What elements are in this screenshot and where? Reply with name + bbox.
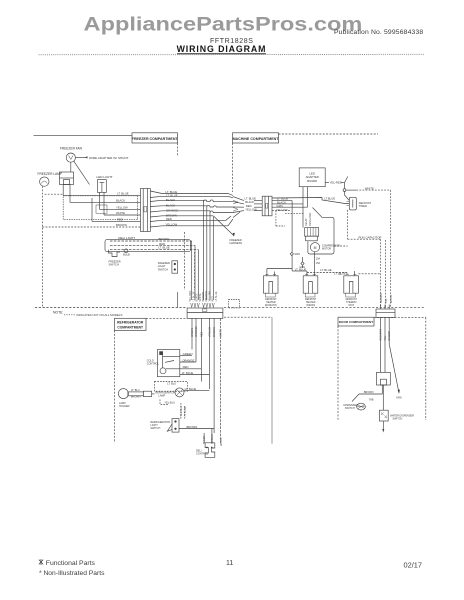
svg-text:LT. BLUE: LT. BLUE: [320, 268, 332, 272]
svg-text:WHITE: WHITE: [220, 329, 223, 337]
node junction diamond grn 1: [290, 252, 300, 256]
svg-text:INDICATES NOT ON ALL MODELS: INDICATES NOT ON ALL MODELS: [77, 313, 123, 317]
wire deli lt blue: [110, 246, 198, 250]
svg-text:LT. BLUE: LT. BLUE: [117, 192, 129, 196]
svg-text:REFRIGERATOR: REFRIGERATOR: [117, 320, 144, 324]
wire arrows entering refrigerator connector: [191, 303, 215, 308]
wire vertical bundle to refrigerator connector: [192, 200, 214, 300]
svg-text:GREEN: GREEN: [191, 328, 194, 337]
svg-text:LT. BLUE: LT. BLUE: [182, 371, 194, 375]
svg-text:ORANGE: ORANGE: [182, 358, 194, 362]
svg-text:SWITCH: SWITCH: [345, 407, 355, 410]
node machine compartment top border: [279, 133, 379, 135]
wire green from control: [180, 352, 193, 356]
resistor fan housing block: [60, 172, 74, 185]
lamp LED light: [97, 175, 113, 192]
svg-text:BROWN: BROWN: [116, 223, 127, 227]
wire refrigerator bundle below connector: [192, 318, 221, 442]
wire lamp dashed link: [45, 193, 64, 195]
node rotated labels machine bottom right: [380, 293, 393, 303]
svg-text:RED: RED: [166, 217, 172, 221]
wire lt blue jumpers above heaters: [295, 267, 355, 275]
wire diagonal ground arrow: [390, 347, 402, 400]
svg-text:FREEZER LAMP: FREEZER LAMP: [38, 172, 62, 176]
svg-text:DELI LIGHT: DELI LIGHT: [118, 236, 135, 240]
wire machine connector to board: [272, 187, 308, 252]
node junction diamond grn 2: [299, 262, 305, 269]
node machine compartment label box: [233, 133, 280, 143]
svg-text:RED-BRN: RED-BRN: [380, 329, 383, 341]
svg-text:* Non-Illustrated Parts: * Non-Illustrated Parts: [39, 570, 105, 577]
svg-text:BLACK: BLACK: [166, 203, 175, 207]
node deli light assembly box: [105, 240, 191, 252]
wire machine inlet merge brackets: [233, 200, 238, 211]
wire dashed link fork3 to cap: [358, 273, 380, 275]
node callout arrow to harness: [214, 217, 242, 246]
wire to defrost thermostat: [345, 192, 350, 201]
svg-text:Publication No. 5995684338: Publication No. 5995684338: [334, 29, 423, 36]
switch S4 dispenser switch: [344, 394, 366, 410]
svg-text:BROWN: BROWN: [380, 293, 383, 303]
node amp labels: [316, 258, 321, 265]
svg-text:YEL: YEL: [385, 298, 388, 303]
node door compartment top border: [374, 316, 426, 318]
node machine compartment left border: [232, 143, 234, 192]
lamp L2 refrigerator lamp: [156, 388, 185, 398]
svg-text:(DRAIN): (DRAIN): [306, 304, 315, 307]
heater E1 defrost heater: [263, 276, 278, 307]
wire into machine connector: [254, 201, 262, 211]
svg-text:RED: RED: [200, 332, 203, 337]
svg-text:LT. BLUE: LT. BLUE: [158, 246, 170, 250]
node door compartment left border: [337, 326, 339, 420]
svg-text:10A: 10A: [316, 258, 321, 261]
node refrigerator compartment top border: [146, 317, 187, 319]
svg-text:LT BLUE: LT BLUE: [184, 406, 187, 416]
connector CN-M machine: [262, 196, 272, 216]
resistor overload protector: [306, 236, 318, 241]
svg-text:ORANGE: ORANGE: [166, 209, 178, 213]
svg-text:LT BLUE: LT BLUE: [215, 291, 218, 301]
node wire labels right of freezer connector: [166, 190, 179, 227]
svg-text:LT. BLU: LT. BLU: [131, 389, 140, 392]
svg-text:Functional Parts: Functional Parts: [46, 560, 96, 567]
wire brown from switch: [179, 425, 214, 429]
svg-text:YEL-BLU: YEL-BLU: [165, 402, 176, 405]
node refrigerator compartment top border right: [224, 316, 272, 318]
relay K3 cold control box: [157, 350, 179, 377]
svg-text:FREEZER FAN: FREEZER FAN: [60, 146, 83, 150]
node refrigerator compartment label box: [115, 318, 147, 330]
lamp L3 fresh food lamp holder: [118, 389, 151, 408]
node header rule: [39, 53, 425, 55]
relay K1 start relay hatched: [305, 228, 319, 237]
svg-text:WHITE: WHITE: [220, 438, 223, 446]
svg-text:BLACK: BLACK: [116, 198, 125, 202]
node rotated labels below refrigerator connector: [191, 326, 223, 337]
svg-text:GRN: GRN: [294, 253, 300, 256]
svg-text:BOARD: BOARD: [307, 179, 317, 183]
wire yel-blue dashed: [160, 400, 185, 419]
node rotated labels relay overload: [305, 212, 312, 226]
node multi control: [196, 443, 215, 458]
wire crossover humps to machine compartment: [204, 197, 244, 218]
svg-text:WHITE: WHITE: [390, 295, 393, 303]
svg-text:BLACK: BLACK: [166, 198, 175, 202]
wire lamp holder link: [152, 393, 155, 395]
node junction circle: [343, 189, 346, 192]
node cold control label: [147, 360, 160, 366]
wire freezer lamp dashed drop: [41, 186, 43, 307]
svg-text:YEL: YEL: [384, 335, 387, 340]
wire brown dashed into connector: [42, 226, 140, 228]
svg-text:BROWN: BROWN: [364, 391, 374, 394]
svg-text:GRN: GRN: [396, 397, 402, 400]
node lamp dashed box: [155, 382, 188, 392]
svg-text:MACHINE COMPARTMENT: MACHINE COMPARTMENT: [233, 137, 280, 141]
svg-text:LAMP: LAMP: [159, 395, 166, 398]
wire lt blue to thermostat: [272, 198, 349, 204]
node door compartment label box: [338, 317, 374, 326]
svg-text:LT. BLUE: LT. BLUE: [185, 387, 197, 391]
motor M1 freezer fan: [60, 146, 83, 162]
node dashed branch below connector: [276, 211, 304, 226]
node door compartment right border: [425, 317, 427, 420]
wire deli red: [110, 242, 195, 246]
svg-text:MOTOR: MOTOR: [322, 247, 331, 250]
thermostat E3 defrost thermostat: [344, 276, 359, 307]
svg-text:FREEZER COMPARTMENT: FREEZER COMPARTMENT: [132, 137, 179, 141]
wire fanout right of connector: [150, 191, 233, 227]
wire run capacitor dashed: [348, 210, 382, 308]
svg-text:SWITCH: SWITCH: [109, 263, 119, 267]
lamp L1 freezer lamp: [38, 172, 62, 186]
node rotated harness labels above refrigerator connector: [189, 290, 218, 301]
node dashed spare connector: [229, 300, 240, 308]
svg-text:02/17: 02/17: [404, 561, 423, 570]
node compartment divider dashed right: [224, 307, 425, 309]
svg-text:YELLOW: YELLOW: [276, 208, 288, 212]
svg-text:TIMER: TIMER: [359, 204, 367, 208]
wire deli brown: [110, 237, 192, 241]
svg-text:LED LIGHT: LED LIGHT: [97, 175, 113, 179]
wire dashed vertical machine right: [385, 240, 387, 308]
svg-text:LT. BLUE: LT. BLUE: [295, 267, 307, 271]
svg-text:WHITE: WHITE: [365, 186, 374, 190]
svg-text:NOTE:: NOTE:: [53, 311, 63, 315]
heater E2 defrost heater 2: [303, 276, 318, 307]
switch S2 freezer light switch: [158, 261, 178, 273]
svg-text:SWITCH: SWITCH: [158, 267, 168, 271]
op-amp U1 led adapter board: [299, 168, 325, 187]
wire yel-red from board: [325, 177, 348, 189]
svg-text:ORANGE: ORANGE: [195, 326, 198, 337]
wire compressor ground drops: [267, 252, 315, 276]
switch S1 freezer door switch: [109, 250, 121, 267]
svg-text:15A: 15A: [316, 262, 321, 265]
svg-text:BROWN: BROWN: [388, 331, 391, 341]
svg-text:RED: RED: [183, 365, 189, 369]
node wire labels left of freezer connector: [116, 192, 129, 227]
wire freezer border dashes lower: [184, 232, 194, 290]
node note dashes and text: [64, 313, 122, 317]
svg-text:BROWN: BROWN: [131, 395, 141, 398]
node freezer compartment label box: [132, 133, 179, 143]
wire harness into freezer connector: [63, 185, 140, 222]
svg-text:GREEN: GREEN: [183, 352, 193, 356]
node refrigerator compartment right border: [271, 317, 273, 444]
svg-text:(RADIANT): (RADIANT): [265, 304, 277, 307]
node compartment divider dashed: [35, 307, 186, 309]
node wire labels left of machine connector: [244, 197, 257, 212]
svg-text:WIRE ADAPTER W/ SHUNT: WIRE ADAPTER W/ SHUNT: [89, 156, 129, 160]
wire dashed shell to cap: [334, 245, 348, 247]
node compressor shell outline: [308, 208, 334, 255]
svg-text:WHITE: WHITE: [116, 211, 125, 215]
svg-text:AppliancePartsPros.com: AppliancePartsPros.com: [84, 14, 363, 35]
svg-text:RELAY: RELAY: [305, 218, 308, 226]
svg-text:YELLOW: YELLOW: [166, 223, 178, 227]
node refrigerator compartment left border: [114, 331, 116, 444]
lamp deli bulb: [123, 249, 130, 256]
svg-text:BROWN: BROWN: [187, 425, 198, 429]
svg-text:OVERLOAD: OVERLOAD: [309, 212, 312, 226]
wire brown dispenser: [359, 385, 382, 401]
node title underline: [177, 53, 266, 54]
svg-text:M: M: [314, 246, 317, 250]
wire drops to multi control: [204, 429, 214, 443]
svg-text:BROWN: BROWN: [159, 237, 170, 241]
node prong ticks: [265, 273, 356, 275]
svg-text:YEL-BLU: YEL-BLU: [180, 406, 183, 417]
node wire labels right of machine connector: [276, 196, 289, 211]
svg-text:HOLDER: HOLDER: [119, 405, 130, 408]
svg-text:RED: RED: [117, 217, 123, 221]
svg-text:STAT: STAT: [348, 304, 354, 307]
svg-text:SWITCH: SWITCH: [393, 418, 403, 421]
node rotated labels door bundle: [380, 329, 392, 341]
svg-text:11: 11: [226, 560, 233, 567]
svg-text:YELLOW: YELLOW: [116, 205, 128, 209]
svg-text:RUN CAPACITOR: RUN CAPACITOR: [359, 235, 382, 239]
svg-text:LT.BLUE: LT.BLUE: [324, 196, 335, 200]
svg-text:WIRING DIAGRAM: WIRING DIAGRAM: [177, 44, 267, 54]
svg-text:COMPARTMENT: COMPARTMENT: [117, 325, 143, 329]
node ice water module: [377, 372, 391, 385]
svg-text:SWITCH: SWITCH: [150, 427, 160, 430]
wire freezer fan diagonal: [74, 161, 90, 184]
svg-text:DOOR COMPARTMENT: DOOR COMPARTMENT: [339, 320, 373, 324]
node wire adapter w/shunt callout: [76, 156, 129, 160]
node freezer compartment top border: [34, 135, 133, 137]
svg-text:A.: A.: [340, 272, 343, 276]
wire door bundle: [381, 318, 390, 373]
svg-text:LT. BLU: LT. BLU: [167, 382, 176, 386]
wire lt blue lamp: [184, 387, 209, 391]
svg-text:CONTROL: CONTROL: [196, 452, 209, 455]
wire lt blue from control: [180, 371, 210, 375]
connector CN-R refrigerator harness: [187, 308, 223, 318]
node light assembly enclosure: [63, 196, 138, 220]
switch S5 water dispenser switch: [379, 385, 414, 433]
node freezer compartment right border lower: [177, 292, 179, 308]
wire white dashed right: [346, 186, 391, 307]
svg-text:LT BLUE: LT BLUE: [208, 327, 211, 337]
svg-text:BROWN: BROWN: [213, 327, 216, 337]
node freezer compartment right border: [177, 143, 179, 156]
relay K2 defrost thermostat: [347, 197, 372, 210]
connector CN-F freezer: [141, 189, 151, 232]
svg-text:HARNESS: HARNESS: [230, 241, 243, 245]
wire freezer fan to housing: [70, 162, 72, 172]
motor M2 compressor: [310, 243, 340, 252]
node functional parts star: [39, 559, 43, 565]
svg-text:YEL-RED: YEL-RED: [330, 181, 342, 185]
switch S3 refrigerator light switch: [150, 419, 179, 433]
connector CN-D door harness: [376, 305, 395, 318]
svg-text:TAB: TAB: [369, 398, 374, 401]
wire red from control: [180, 365, 202, 369]
wire orange from control: [180, 358, 196, 362]
svg-text:BULB: BULB: [123, 252, 130, 256]
svg-text:LT. BLUE: LT. BLUE: [166, 193, 178, 197]
node rotated labels above light switch: [180, 406, 187, 417]
node rotated labels above multi control: [203, 434, 223, 446]
